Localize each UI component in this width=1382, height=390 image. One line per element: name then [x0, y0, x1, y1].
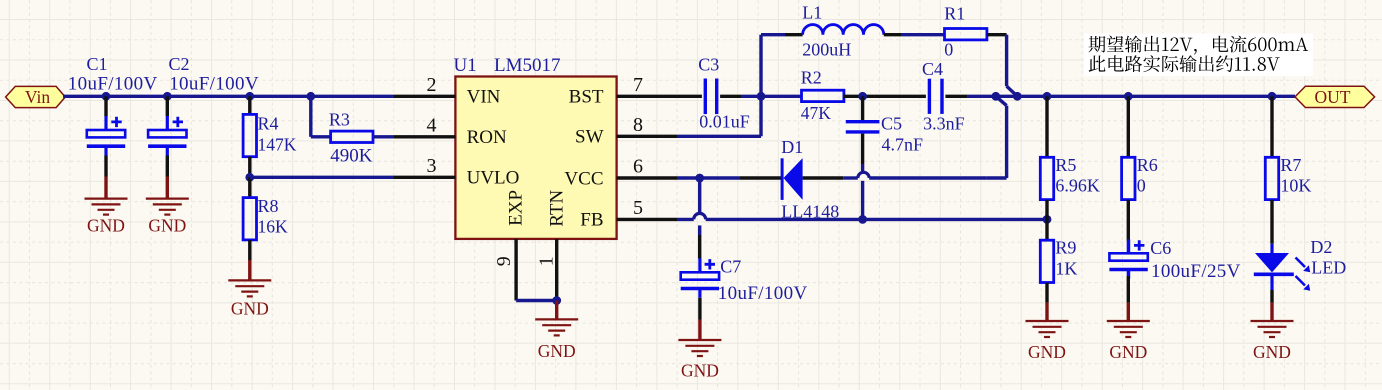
resistor R7	[1265, 96, 1278, 244]
junction FB/R5/R9	[1043, 215, 1052, 224]
junction BST/L1/SW node	[757, 92, 766, 101]
svg-text:SW: SW	[575, 127, 604, 148]
svg-text:16K: 16K	[258, 217, 289, 237]
U1 pin 1 RTN	[535, 190, 567, 301]
U1 pin 4 RON	[394, 115, 507, 149]
svg-text:10K: 10K	[1280, 176, 1311, 196]
svg-text:EXP: EXP	[506, 190, 527, 226]
capacitor C1	[87, 96, 125, 176]
svg-text:8: 8	[633, 114, 643, 136]
wire: jog down to VCC/D1 line	[987, 96, 1007, 178]
svg-text:3: 3	[427, 155, 437, 177]
ground GND (R9)	[1026, 303, 1069, 363]
junction at C1	[102, 92, 111, 101]
U1 pin 5 FB	[580, 197, 677, 231]
diode D1	[782, 158, 803, 200]
svg-text:GND: GND	[1028, 342, 1066, 362]
resistor R4	[243, 96, 256, 177]
svg-text:R9: R9	[1055, 238, 1076, 258]
U1 pin 7 BST	[569, 74, 677, 108]
junction output jog left	[991, 92, 1000, 101]
resistor R2	[802, 90, 844, 101]
svg-text:GND: GND	[538, 341, 576, 361]
svg-text:3.3nF: 3.3nF	[923, 114, 965, 134]
svg-text:C5: C5	[881, 114, 902, 134]
svg-text:4: 4	[427, 115, 437, 137]
svg-text:9: 9	[493, 256, 515, 266]
junction R6 top	[1124, 92, 1133, 101]
svg-text:Vin: Vin	[25, 87, 50, 107]
U1 pin 3 UVLO	[394, 155, 519, 189]
svg-text:OUT: OUT	[1315, 87, 1351, 107]
svg-text:R6: R6	[1137, 155, 1158, 175]
svg-text:10uF/100V: 10uF/100V	[718, 283, 808, 304]
wire: input bus from Vin to U1 pin 2	[63, 95, 394, 98]
svg-text:R5: R5	[1055, 155, 1076, 175]
wire: BST node up to L1	[761, 35, 785, 97]
wire: VCC pin to D1	[677, 176, 782, 179]
wire: pin 9 to pin 1 bottom	[516, 299, 557, 302]
junction at R3 tap	[306, 92, 315, 101]
wire: output bus jog	[996, 95, 1018, 98]
svg-text:R4: R4	[258, 114, 279, 134]
port OUT	[1295, 86, 1375, 107]
svg-text:6: 6	[633, 156, 643, 178]
svg-text:1K: 1K	[1055, 258, 1077, 278]
svg-text:VIN: VIN	[467, 87, 501, 108]
ground GND (C2)	[146, 177, 189, 236]
capacitor C6	[1109, 239, 1147, 302]
wire: output bus to OUT port	[1017, 95, 1295, 98]
svg-text:C2: C2	[169, 54, 190, 74]
capacitor C7	[681, 258, 719, 319]
svg-text:GND: GND	[231, 298, 269, 318]
wire: R2 to C4	[844, 95, 926, 98]
svg-text:47K: 47K	[801, 103, 832, 123]
U1 pin 8 SW	[575, 114, 677, 148]
svg-text:RTN: RTN	[547, 190, 568, 227]
svg-text:C4: C4	[922, 59, 943, 79]
svg-text:FB: FB	[580, 210, 603, 231]
svg-text:0: 0	[944, 40, 953, 60]
capacitor C2	[148, 96, 186, 176]
U1 pin 6 VCC	[564, 156, 677, 190]
svg-text:490K: 490K	[330, 146, 373, 167]
resistor R6	[1122, 96, 1135, 241]
svg-text:147K: 147K	[258, 134, 297, 154]
svg-text:GND: GND	[1109, 342, 1147, 362]
resistor R9	[1040, 219, 1053, 302]
wire: BST node to R2	[761, 95, 802, 98]
svg-text:6.96K: 6.96K	[1055, 176, 1100, 196]
svg-text:C3: C3	[698, 54, 719, 74]
wire: R1 down to output node	[1007, 35, 1018, 97]
svg-text:C7: C7	[720, 256, 741, 276]
svg-text:GND: GND	[148, 215, 186, 235]
LED D2	[1254, 244, 1310, 303]
svg-text:10uF/100V: 10uF/100V	[68, 73, 158, 94]
resistor R5	[1040, 96, 1053, 219]
svg-text:200uH: 200uH	[802, 40, 851, 60]
note line 2	[1089, 55, 1280, 72]
ground GND (U1)	[535, 301, 578, 362]
svg-text:LED: LED	[1311, 257, 1346, 277]
svg-text:C1: C1	[87, 54, 108, 74]
resistor R1	[945, 29, 1007, 40]
svg-text:0.01uF: 0.01uF	[699, 112, 750, 132]
svg-text:C6: C6	[1150, 238, 1171, 258]
capacitor C4	[929, 79, 995, 114]
svg-text:100uF/25V: 100uF/25V	[1151, 261, 1241, 282]
note text frame	[1084, 34, 1313, 77]
junction FB/C5	[858, 215, 867, 224]
capacitor C5	[846, 96, 880, 219]
junction at C2	[163, 92, 172, 101]
junction VCC/C7	[695, 174, 704, 183]
junction at R4	[245, 92, 254, 101]
svg-text:R2: R2	[801, 68, 822, 88]
ground GND (C1)	[85, 177, 128, 236]
svg-text:D1: D1	[781, 137, 803, 157]
port Vin	[6, 86, 66, 107]
junction C5 top	[858, 92, 867, 101]
svg-text:L1: L1	[802, 3, 822, 23]
svg-text:R3: R3	[329, 109, 350, 129]
U1 pin 2 VIN	[394, 74, 501, 108]
svg-text:7: 7	[633, 74, 643, 96]
wire: D1 to output node (with hop over C5 wire)	[803, 172, 987, 178]
svg-text:1: 1	[535, 256, 557, 266]
svg-text:10uF/100V: 10uF/100V	[169, 73, 259, 94]
IC U1 LM5017 body	[455, 77, 616, 239]
inductor L1	[785, 25, 945, 35]
svg-text:R8: R8	[258, 196, 279, 216]
svg-text:GND: GND	[87, 215, 125, 235]
wire: R4/R8 junction to U1 pin 3	[250, 176, 394, 179]
svg-text:0: 0	[1137, 176, 1146, 196]
junction at U1 ground	[552, 296, 561, 305]
wire: VCC junction down to C7	[698, 178, 701, 259]
svg-text:U1: U1	[454, 55, 477, 76]
svg-text:5: 5	[633, 197, 643, 219]
U1 pin 9 EXP	[493, 190, 527, 301]
junction R5 top	[1043, 92, 1052, 101]
svg-text:GND: GND	[1253, 342, 1291, 362]
svg-text:GND: GND	[681, 361, 719, 381]
svg-text:LM5017: LM5017	[494, 55, 561, 76]
svg-text:2: 2	[427, 74, 437, 96]
ground GND (D2)	[1251, 303, 1294, 363]
svg-text:VCC: VCC	[564, 168, 603, 189]
ground GND (R8)	[228, 260, 271, 318]
svg-text:RON: RON	[467, 127, 507, 148]
capacitor C3	[677, 79, 761, 115]
svg-text:R7: R7	[1280, 155, 1301, 175]
svg-text:UVLO: UVLO	[467, 168, 520, 189]
svg-text:D2: D2	[1310, 237, 1332, 257]
junction output jog right	[1013, 92, 1022, 101]
wire: bus tap down to R3	[311, 96, 331, 137]
svg-text:BST: BST	[569, 87, 604, 108]
note line 1	[1089, 36, 1309, 55]
junction R7 top	[1268, 92, 1277, 101]
resistor R8	[243, 177, 256, 260]
svg-text:R1: R1	[944, 4, 965, 24]
ground GND (C7)	[678, 320, 721, 381]
wire: SW pin up to BST node	[677, 96, 761, 136]
junction R4/R8/UVLO	[245, 173, 254, 182]
ground GND (C6)	[1107, 303, 1150, 363]
wire: R3 to U1 pin 4	[373, 135, 394, 138]
resistor R3	[331, 131, 373, 142]
svg-text:4.7nF: 4.7nF	[882, 135, 924, 155]
wire: FB pin to R5/R9 junction (hops over C7 wire)	[677, 213, 1047, 219]
